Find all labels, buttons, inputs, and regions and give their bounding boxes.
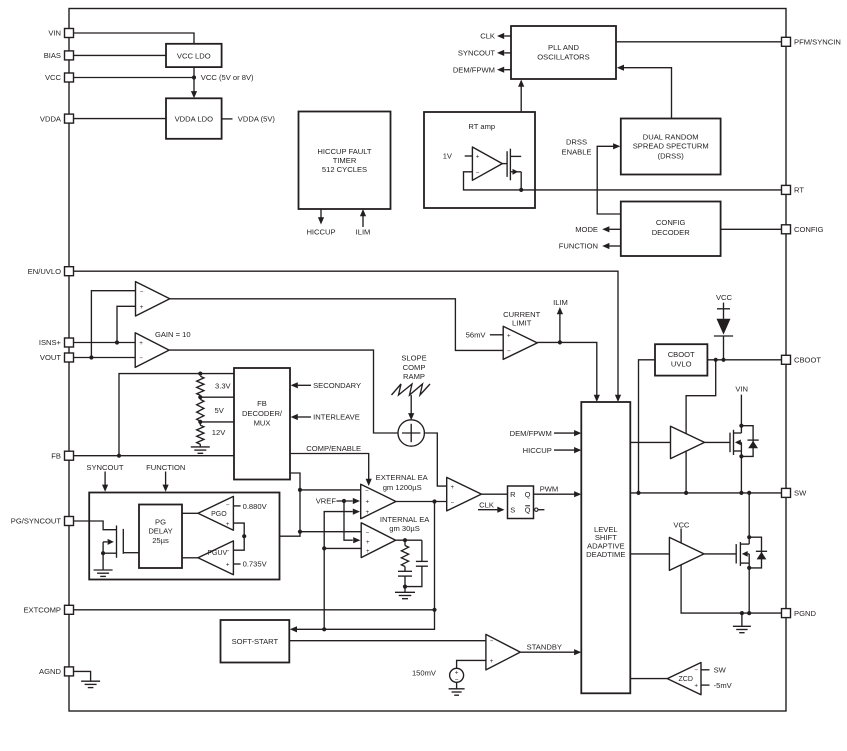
wire divider top to FB [119, 374, 200, 456]
svg-text:S: S [510, 506, 515, 515]
svg-text:−: − [365, 530, 369, 537]
block DRSS [621, 119, 721, 175]
svg-text:150mV: 150mV [412, 668, 437, 677]
wire ramp to summer [410, 395, 412, 414]
svg-text:FUNCTION: FUNCTION [146, 463, 185, 472]
wire comparator non-inverting input [117, 306, 136, 342]
svg-text:3.3V: 3.3V [215, 382, 232, 391]
block PG [89, 493, 279, 580]
capacitor compensation parallel [416, 561, 428, 566]
svg-text:AGND: AGND [39, 667, 61, 676]
wire current sense to summer [169, 350, 398, 433]
wire tap 3.3V [200, 396, 234, 398]
wire DRSS ENABLE [597, 146, 621, 214]
svg-text:STANDBY: STANDBY [527, 642, 562, 651]
block RT amp [424, 112, 535, 208]
resistor 3.3V tap [197, 376, 204, 395]
svg-text:OSCILLATORS: OSCILLATORS [537, 53, 589, 62]
wire SECONDARY input [298, 384, 311, 386]
svg-text:512 CYCLES: 512 CYCLES [322, 165, 367, 174]
svg-text:56mV: 56mV [466, 331, 487, 340]
junction [298, 488, 302, 492]
wire COMP node to soft-start [296, 502, 434, 630]
svg-text:−: − [450, 499, 454, 506]
wire STANDBY to level shift [520, 651, 574, 653]
svg-text:−: − [694, 667, 698, 674]
svg-text:PGUV: PGUV [207, 550, 227, 557]
junction body diode [739, 424, 743, 428]
svg-text:0.880V: 0.880V [243, 502, 268, 511]
svg-text:HICCUP: HICCUP [523, 446, 552, 455]
wire 0.880V stub [233, 505, 240, 507]
svg-text:FB: FB [257, 399, 267, 408]
wire AGND to ground [73, 671, 90, 681]
svg-text:−: − [490, 638, 494, 645]
wire RT amp to PLL [520, 86, 522, 156]
wire CLK output [504, 35, 511, 37]
wire soft-start to internal EA [324, 547, 361, 549]
junction on ISNS+ net [115, 340, 119, 344]
svg-text:CBOOT: CBOOT [668, 350, 695, 359]
block SOFT-START [221, 620, 290, 663]
wire SW net [630, 492, 782, 494]
wire [199, 421, 201, 425]
comparator PGO [198, 496, 233, 530]
wire soft-start to standby comparator [289, 640, 486, 642]
wire driver return to SW [685, 451, 687, 493]
pin VIN [48, 29, 73, 38]
flip-flop RS latch [508, 486, 534, 519]
svg-text:VREF: VREF [316, 497, 337, 506]
svg-text:COMP: COMP [403, 363, 426, 372]
junction [322, 627, 326, 631]
inversion bubble Qbar [535, 508, 538, 511]
pin AGND [39, 667, 73, 676]
svg-text:PGO: PGO [211, 511, 227, 518]
svg-text:RAMP: RAMP [403, 372, 425, 381]
svg-text:VCC (5V or 8V): VCC (5V or 8V) [201, 73, 254, 82]
svg-text:EXTCOMP: EXTCOMP [23, 606, 61, 615]
block CBOOT UVLO [655, 344, 707, 375]
svg-text:VCC LDO: VCC LDO [177, 51, 211, 60]
svg-text:HICCUP FAULT: HICCUP FAULT [317, 147, 372, 156]
svg-text:DEM/FPWM: DEM/FPWM [453, 65, 495, 74]
Qbar overline [525, 505, 530, 507]
svg-text:RT amp: RT amp [468, 122, 495, 131]
wire HICCUP input [554, 449, 575, 451]
svg-text:−: − [365, 488, 369, 495]
block LEVEL SHIFT ADAPTIVE DEADTIME [581, 402, 630, 693]
wire VREF to internal EA [344, 501, 353, 540]
pin EXTCOMP [23, 605, 73, 614]
svg-text:CONFIG: CONFIG [794, 225, 824, 234]
wire PGUV output [182, 557, 198, 559]
svg-text:CBOOT: CBOOT [794, 356, 821, 365]
wire to external EA inverting input [300, 489, 361, 491]
wire VCC pin to VCC node [74, 77, 195, 79]
wire PG comparator threshold [233, 523, 244, 550]
wire HICCUP output [320, 209, 322, 218]
wire EN/UVLO to level shift [74, 271, 619, 395]
wire SYNCOUT into PG block [104, 472, 106, 486]
ground PG [94, 570, 113, 576]
svg-text:RT: RT [794, 186, 804, 195]
svg-text:25µs: 25µs [152, 536, 169, 545]
comparator PGUV [198, 541, 233, 575]
svg-text:+: + [366, 548, 370, 555]
svg-text:5V: 5V [215, 406, 225, 415]
block PG DELAY [139, 505, 182, 569]
wire RT amp feedback [464, 172, 522, 190]
svg-text:gm 1200µS: gm 1200µS [383, 483, 422, 492]
wire PGO output [182, 512, 198, 514]
pin ISNS+ [39, 338, 74, 347]
wire external EA output [396, 501, 447, 503]
svg-text:EXTERNAL EA: EXTERNAL EA [376, 473, 429, 482]
wire 0.735V stub [233, 563, 240, 565]
wire body diode branch [741, 426, 753, 457]
svg-text:−: − [476, 169, 480, 176]
svg-text:−: − [226, 502, 230, 509]
junction body diode [747, 535, 751, 539]
svg-text:+: + [507, 333, 511, 340]
capacitor compensation series [398, 571, 412, 576]
svg-text:+: + [490, 658, 494, 665]
svg-text:-5mV: -5mV [714, 681, 733, 690]
wire [404, 587, 406, 593]
svg-text:Q: Q [525, 506, 531, 515]
svg-text:SECONDARY: SECONDARY [313, 381, 361, 390]
junction FB net [117, 454, 121, 458]
svg-text:INTERNAL EA: INTERNAL EA [380, 515, 430, 524]
junction ILIM node [558, 340, 562, 344]
svg-text:COMP/ENABLE: COMP/ENABLE [306, 444, 361, 453]
svg-text:−: − [139, 355, 143, 362]
diode VCC to CBOOT [714, 303, 733, 360]
pin VCC [45, 73, 74, 82]
pin VOUT [40, 353, 74, 362]
svg-text:VOUT: VOUT [40, 353, 61, 362]
svg-text:+: + [226, 562, 230, 569]
comparator CURRENT LIMIT [503, 326, 537, 359]
svg-text:CLK: CLK [479, 500, 494, 509]
junction [739, 454, 743, 458]
wire VDDA pin to VDDA LDO [74, 118, 167, 120]
junction [721, 358, 725, 362]
wire DEM/FPWM output [504, 69, 511, 71]
wire ZCD to level shift [630, 678, 667, 680]
wire VCC to driver [680, 529, 682, 544]
block VDDA LDO [166, 98, 222, 139]
wire DEM/FPWM input [554, 432, 575, 434]
junction PG source [101, 551, 105, 555]
op-amp current sense GAIN = 10 [135, 333, 169, 368]
wire EXTCOMP net [74, 609, 435, 611]
wire -5mV stub [701, 684, 710, 686]
resistor 12V tap [197, 425, 204, 444]
wire to power ground [741, 613, 743, 626]
pin BIAS [44, 51, 74, 60]
svg-text:INTERLEAVE: INTERLEAVE [313, 413, 360, 422]
svg-text:SOFT-START: SOFT-START [232, 637, 279, 646]
svg-text:DEADTIME: DEADTIME [586, 550, 625, 559]
ground AGND [81, 681, 100, 687]
wire comparator out to current limit [170, 299, 503, 351]
wire Qbar stub [538, 509, 544, 511]
svg-text:GAIN = 10: GAIN = 10 [155, 330, 191, 339]
wire MODE output [609, 228, 620, 230]
wire [199, 444, 201, 447]
svg-text:ISNS+: ISNS+ [39, 338, 62, 347]
driver high-side [671, 426, 705, 458]
wire [404, 567, 406, 572]
junction VREF [342, 499, 346, 503]
pin PGND [782, 609, 817, 618]
wire divider top tap [200, 373, 234, 375]
svg-text:MODE: MODE [575, 225, 598, 234]
wire body diode branch [749, 537, 761, 568]
svg-text:(DRSS): (DRSS) [658, 151, 685, 160]
wire tap 5V [200, 421, 234, 423]
pin PG/SYNCOUT [11, 517, 74, 526]
svg-text:SW: SW [714, 666, 727, 675]
svg-text:+: + [226, 521, 230, 528]
pin FB [51, 451, 73, 460]
wire comparator inverting input [91, 291, 135, 358]
svg-text:+: + [450, 484, 454, 491]
wire RT amp to gate [502, 163, 507, 165]
svg-text:FB: FB [51, 451, 61, 460]
transistor RT amp MOSFET [507, 149, 521, 190]
block CONFIG DECODER [621, 202, 721, 257]
wire VOUT net [74, 357, 136, 359]
svg-text:MUX: MUX [254, 419, 271, 428]
pin CONFIG [782, 225, 824, 234]
svg-text:VDDA: VDDA [40, 114, 62, 123]
pin SW [782, 488, 808, 497]
wire level shift to HO driver [630, 441, 670, 443]
svg-text:ILIM: ILIM [356, 227, 371, 236]
wire down to soft-start net [323, 548, 325, 629]
ground 150mV [449, 689, 465, 695]
svg-text:1V: 1V [443, 152, 453, 161]
svg-text:LIMIT: LIMIT [512, 318, 532, 327]
wire 56mV stub [490, 334, 503, 336]
svg-text:VCC: VCC [673, 520, 690, 529]
junction VCC node [192, 75, 196, 79]
driver low-side [669, 537, 704, 570]
junction comp network [403, 538, 407, 542]
wire HO gate [705, 441, 731, 443]
source 150mV [450, 668, 464, 682]
transistor high-side MOSFET [730, 395, 741, 493]
wire RT node to RT pin [521, 189, 782, 191]
svg-text:EN/UVLO: EN/UVLO [28, 267, 61, 276]
svg-text:−: − [226, 548, 230, 555]
wire 1V input stub [465, 155, 473, 157]
wire COMP/ENABLE to error amp [290, 454, 369, 480]
block PLL AND OSCILLATORS [511, 26, 616, 79]
wire PLL to PFM/SYNCIN pin [616, 41, 782, 43]
op-amp EXTERNAL EA [361, 484, 396, 519]
wire PGND net [681, 565, 782, 613]
summing node [398, 420, 424, 446]
svg-text:ILIM: ILIM [553, 298, 568, 307]
junction [714, 358, 718, 362]
svg-text:HICCUP: HICCUP [306, 227, 335, 236]
junction [403, 585, 407, 589]
wire FB decoder to PG comparators [244, 473, 300, 536]
wire [199, 395, 201, 399]
wire FUNCTION into PG block [165, 472, 167, 486]
svg-text:DRSS: DRSS [566, 138, 587, 147]
svg-text:+: + [365, 509, 369, 516]
svg-text:R: R [510, 490, 516, 499]
transistor PG open-drain MOSFET [103, 526, 139, 558]
wire parallel capacitor [421, 540, 423, 561]
junction on VOUT net [89, 355, 93, 359]
wire VCC LDO output [193, 67, 195, 77]
wire VREF [337, 500, 353, 502]
junction on SW net [636, 491, 640, 495]
wire current limit to level shift [537, 342, 597, 395]
junction [740, 611, 744, 615]
wire summer to PWM comparator [424, 433, 447, 486]
wire to ground [102, 553, 104, 570]
comparator ZCD [667, 663, 701, 695]
svg-text:BIAS: BIAS [44, 51, 61, 60]
svg-text:0.735V: 0.735V [243, 560, 268, 569]
junction COMP node [432, 499, 436, 503]
wire to internal EA inverting input [300, 531, 361, 533]
junction [747, 491, 751, 495]
svg-text:+: + [366, 539, 370, 546]
wire SW sense stub [701, 669, 710, 671]
wire PWM comparator to latch R [481, 493, 507, 495]
junction [739, 491, 743, 495]
svg-text:gm 30µS: gm 30µS [389, 524, 420, 533]
pin CBOOT [782, 355, 822, 364]
junction tap 3.3V [198, 395, 202, 399]
svg-text:DECODER/: DECODER/ [242, 409, 283, 418]
wire VDDA LDO output stub [222, 118, 233, 120]
junction [298, 530, 302, 534]
wire INTERLEAVE input [298, 416, 311, 418]
junction [747, 611, 751, 615]
svg-text:VDDA LDO: VDDA LDO [175, 114, 213, 123]
junction RT node [519, 188, 523, 192]
resistor compensation [401, 546, 408, 567]
svg-text:VDDA (5V): VDDA (5V) [238, 115, 276, 124]
svg-text:DELAY: DELAY [148, 527, 172, 536]
svg-text:DEM/FPWM: DEM/FPWM [510, 429, 552, 438]
svg-text:VIN: VIN [735, 384, 748, 393]
svg-text:FUNCTION: FUNCTION [559, 242, 598, 251]
IC boundary [69, 9, 786, 712]
wire FB net [74, 455, 235, 457]
svg-text:12V: 12V [212, 428, 226, 437]
ground PGND [733, 626, 751, 632]
svg-text:UVLO: UVLO [671, 360, 692, 369]
svg-text:+: + [365, 499, 369, 506]
junction [684, 491, 688, 495]
wire ILIM input [362, 215, 364, 228]
wire PG/SYNCOUT to MOSFET drain [74, 521, 117, 530]
svg-text:DUAL RANDOM: DUAL RANDOM [643, 133, 699, 142]
block FB DECODER/MUX [234, 368, 290, 480]
op-amp RT amp [472, 147, 502, 180]
junction [322, 546, 326, 550]
wire standby reference [457, 660, 486, 668]
svg-text:VCC: VCC [716, 293, 733, 302]
junction tap 5V [198, 420, 202, 424]
wire internal EA output [396, 539, 422, 541]
svg-text:ZCD: ZCD [679, 676, 693, 683]
block HICCUP FAULT TIMER [299, 112, 391, 210]
svg-text:+: + [694, 683, 698, 690]
svg-text:SPREAD SPECTURM: SPREAD SPECTURM [633, 142, 709, 151]
wire [456, 682, 458, 689]
transistor low-side MOSFET [736, 493, 749, 613]
wire soft-start to external EA [324, 512, 353, 549]
wire [405, 566, 422, 586]
pin PFM/SYNCIN [782, 37, 841, 46]
wire CLK to latch S [478, 509, 498, 511]
ground divider [191, 447, 210, 453]
pin RT [782, 185, 805, 194]
junction EXTCOMP node [432, 608, 436, 612]
svg-text:PG: PG [155, 518, 166, 527]
svg-text:TIMER: TIMER [333, 156, 357, 165]
svg-text:+: + [140, 304, 144, 311]
svg-text:+: + [139, 340, 143, 347]
wire BIAS to VCC LDO [74, 54, 167, 56]
svg-text:PLL AND: PLL AND [548, 43, 579, 52]
svg-text:PWM: PWM [540, 484, 559, 493]
slope comp ramp waveform [392, 384, 431, 395]
junction [747, 566, 751, 570]
svg-text:DECODER: DECODER [652, 228, 690, 237]
wire DRSS to PLL [624, 68, 672, 119]
junction divider top [198, 372, 202, 376]
svg-text:VIN: VIN [48, 29, 61, 38]
svg-text:ENABLE: ENABLE [562, 147, 592, 156]
svg-text:PGND: PGND [794, 609, 816, 618]
wire FUNCTION output [609, 245, 620, 247]
resistor 5V tap [197, 399, 204, 421]
svg-text:PG/SYNCOUT: PG/SYNCOUT [11, 517, 62, 526]
pin VDDA [40, 114, 74, 123]
ground compensation [395, 592, 415, 598]
wire [404, 540, 406, 545]
wire SYNCOUT output [504, 52, 511, 54]
junction [242, 534, 246, 538]
comparator UVLO sense [136, 282, 170, 316]
comparator PWM [447, 477, 482, 511]
wire CBOOT net [707, 359, 782, 361]
svg-text:SYNCOUT: SYNCOUT [458, 49, 495, 58]
wire PWM to level shift [534, 493, 575, 495]
wire CBOOT UVLO to SW [639, 360, 656, 493]
svg-text:−: − [507, 348, 511, 355]
wire [404, 576, 406, 587]
svg-text:CLK: CLK [480, 32, 495, 41]
svg-text:Q: Q [525, 490, 531, 499]
pin EN/UVLO [28, 267, 74, 276]
wire CBOOT to driver supply [686, 360, 716, 435]
svg-text:PFM/SYNCIN: PFM/SYNCIN [794, 38, 841, 47]
wire ISNS+ net [74, 342, 136, 344]
